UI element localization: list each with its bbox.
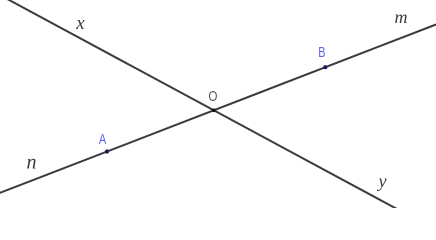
svg-text:m: m	[395, 7, 408, 27]
svg-text:n: n	[27, 152, 37, 174]
svg-text:O: O	[208, 87, 217, 104]
line n-m	[0, 23, 436, 194]
point A	[105, 149, 109, 153]
svg-text:A: A	[99, 130, 107, 147]
svg-text:y: y	[377, 171, 387, 191]
point B	[323, 65, 327, 69]
svg-text:B: B	[318, 43, 325, 60]
svg-text:x: x	[75, 13, 85, 34]
point O	[212, 109, 216, 113]
